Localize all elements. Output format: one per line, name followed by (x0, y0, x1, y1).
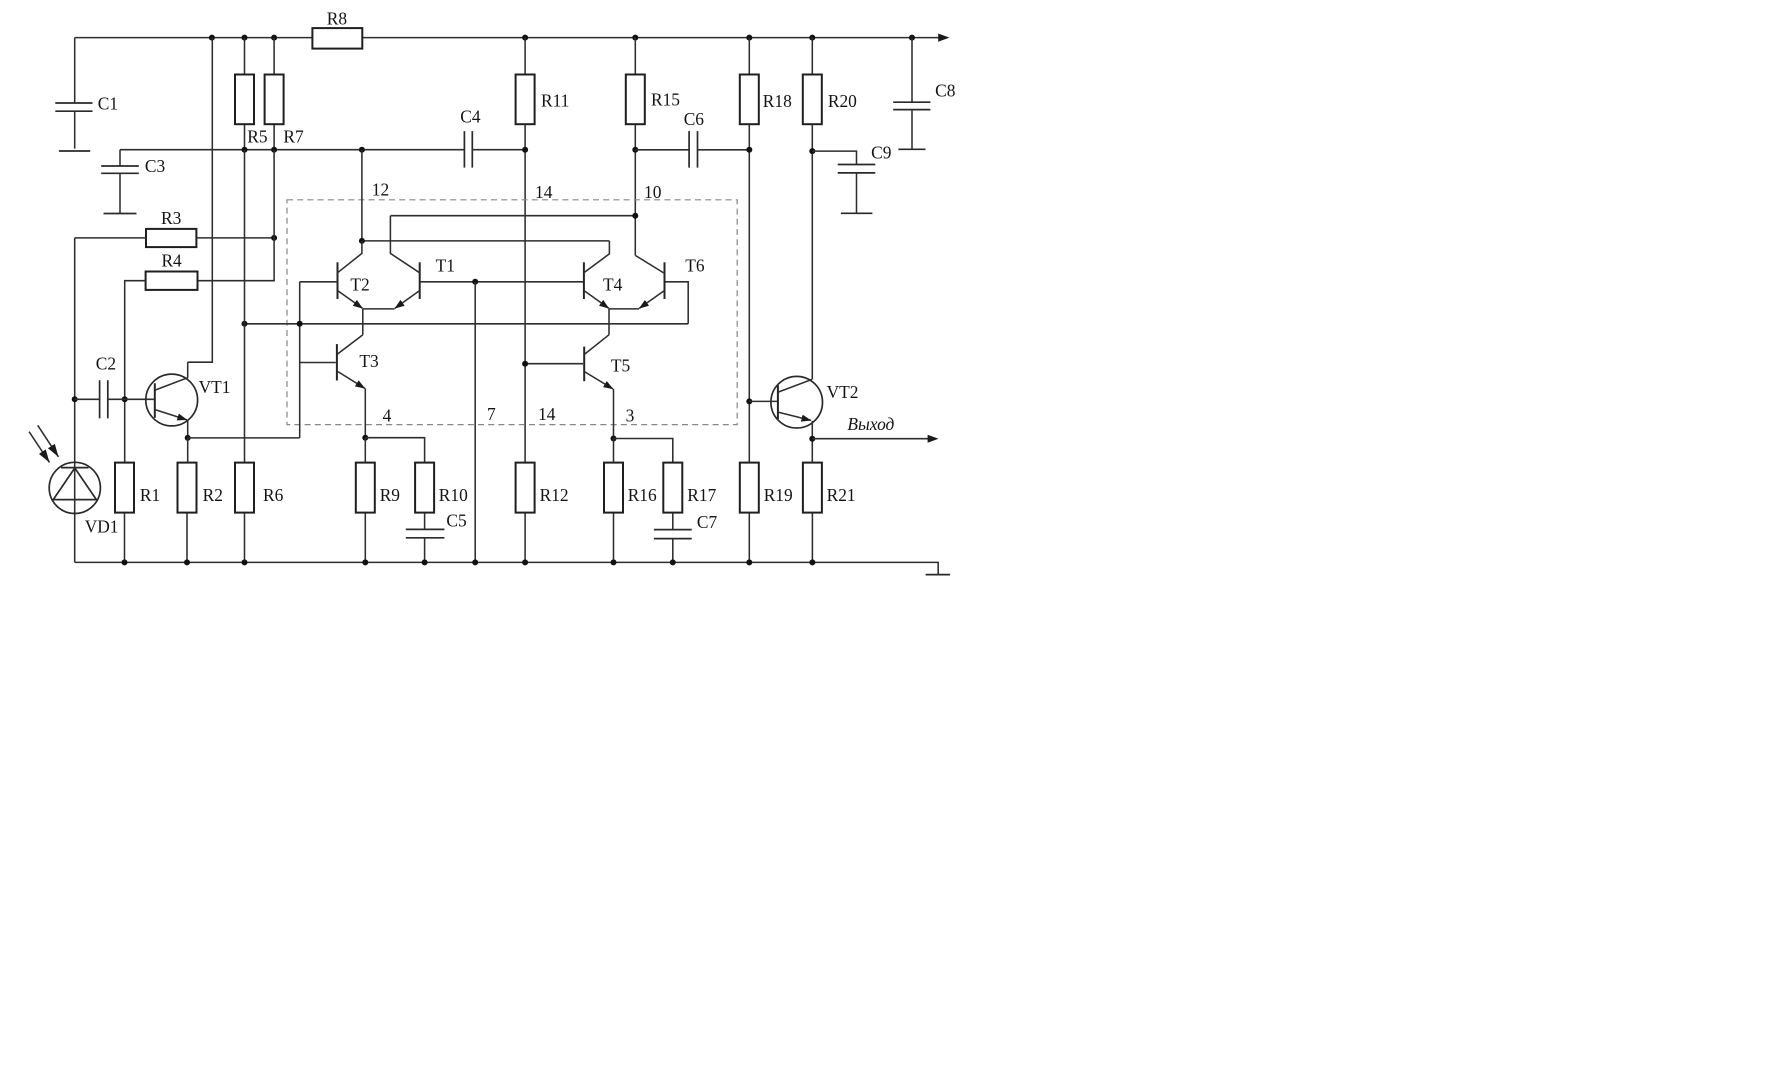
node dot top rail x635 (632, 35, 638, 41)
svg-text:C8: C8 (935, 81, 956, 101)
wire pin 12 (361, 150, 363, 241)
svg-text:R9: R9 (380, 485, 400, 505)
node dot x124.7 y399 (122, 396, 128, 402)
photodiode VD1 (29, 425, 100, 513)
resistor R4 (146, 272, 198, 290)
top rail arrowhead (938, 34, 949, 42)
transistor T2 (300, 241, 363, 309)
svg-text:R19: R19 (764, 485, 793, 505)
node dot x635 y150 (632, 147, 638, 153)
transistor T1 (390, 216, 583, 309)
resistor R6 (235, 463, 254, 513)
svg-text:R10: R10 (439, 485, 468, 505)
node dot VT2 base (746, 398, 752, 404)
resistor R21 (803, 463, 822, 513)
node dot gnd x812 (809, 559, 815, 565)
svg-text:14: 14 (535, 182, 553, 202)
transistor T4 (584, 241, 610, 309)
node dot top rail x274 (271, 35, 277, 41)
resistor R20 (803, 38, 822, 125)
ground bar (926, 574, 951, 576)
capacitor C1 (55, 38, 92, 151)
node dot T1 base pin7 (472, 279, 478, 285)
svg-text:7: 7 (487, 404, 496, 424)
svg-text:T6: T6 (685, 255, 705, 275)
capacitor C7 (654, 513, 692, 563)
node dot mid rail x244 (242, 147, 248, 153)
transistor T6 (635, 255, 664, 308)
node dot top rail x912 (909, 35, 915, 41)
svg-text:R20: R20 (828, 91, 857, 111)
wire R2 riser and bottom (186, 438, 189, 563)
capacitor C8 (893, 38, 930, 150)
svg-text:R16: R16 (628, 485, 657, 505)
node dot top rail x212 (209, 35, 215, 41)
wire R19 bottom (748, 513, 750, 563)
wire left column x74.7 (74, 238, 76, 563)
node dot VT1 emitter (185, 435, 191, 441)
svg-text:3: 3 (626, 406, 635, 426)
resistor R10 (415, 463, 434, 513)
wire top supply rail (75, 37, 939, 39)
node dot x299 y324 (297, 321, 303, 327)
svg-text:VD1: VD1 (85, 517, 119, 537)
node dot pin4 junction (362, 435, 368, 441)
node dot gnd x672 (670, 559, 676, 565)
wire R5/R6 column (244, 150, 246, 563)
wire R18 to VT2 base and R19 (748, 124, 750, 462)
svg-text:4: 4 (383, 406, 392, 426)
svg-text:C4: C4 (460, 107, 481, 127)
node dot T5 base x525 (522, 361, 528, 367)
svg-text:C3: C3 (145, 156, 166, 176)
transistor VT2 (749, 376, 822, 438)
resistor R7 (265, 38, 284, 150)
capacitor C9 (812, 151, 875, 213)
svg-text:T5: T5 (611, 355, 631, 375)
wire R4 left down to R1 (125, 281, 146, 463)
wire T2-T4 collector link (362, 240, 610, 242)
capacitor C2 (75, 380, 154, 418)
svg-text:Выход: Выход (847, 414, 894, 434)
wire R12 bottom (524, 513, 526, 563)
node dot gnd x749 (746, 559, 752, 565)
node dot top rail x812 (809, 35, 815, 41)
svg-text:R2: R2 (203, 485, 223, 505)
node dot gnd x475 (472, 559, 478, 565)
wire R3 right to R7 column (196, 237, 274, 239)
resistor R17 (663, 463, 682, 513)
wire mid rail y150 (120, 149, 464, 151)
transistor T5 (525, 335, 613, 389)
svg-text:C9: C9 (871, 142, 891, 162)
node dot gnd x187 (184, 559, 190, 565)
svg-text:C2: C2 (96, 353, 116, 373)
wire pin 14 column (524, 124, 526, 462)
resistor R16 (604, 463, 623, 513)
resistor R15 (626, 38, 645, 125)
node dot x749 y150 (746, 147, 752, 153)
node dot top rail x749 (746, 35, 752, 41)
svg-text:R5: R5 (247, 127, 268, 147)
node dot gnd x613 (611, 559, 617, 565)
capacitor C4 (464, 131, 525, 168)
wire long base horizontal y324 (245, 282, 689, 324)
transistor VT1 (146, 362, 198, 438)
wire R1 bottom (124, 513, 126, 563)
svg-text:C7: C7 (697, 512, 718, 532)
resistor R5 (235, 38, 254, 150)
capacitor C3 (101, 150, 139, 214)
wire VT1 emitter to T2/T3 feed (188, 437, 300, 439)
svg-text:R8: R8 (327, 8, 348, 28)
svg-text:T4: T4 (603, 274, 623, 294)
svg-text:R3: R3 (161, 208, 182, 228)
node dot x362 y240.9 (359, 238, 365, 244)
svg-text:R11: R11 (541, 91, 569, 111)
svg-text:R12: R12 (540, 485, 569, 505)
wire VT1 collector rail x212 (188, 38, 213, 363)
wire R20 to VT2 collector (811, 124, 813, 379)
svg-text:10: 10 (644, 182, 662, 202)
resistor R8 (312, 28, 362, 48)
node dot R3 right x274 (271, 235, 277, 241)
resistor R12 (516, 463, 535, 513)
resistor R18 (740, 38, 759, 125)
wire output (812, 438, 928, 440)
svg-text:C5: C5 (446, 510, 467, 530)
svg-text:R7: R7 (283, 127, 304, 147)
capacitor C6 (635, 131, 749, 168)
svg-text:T3: T3 (359, 351, 379, 371)
svg-text:VT1: VT1 (199, 377, 231, 397)
node dot VT2 emitter output (809, 436, 815, 442)
svg-text:C1: C1 (98, 94, 118, 114)
wire pin 10 column (634, 124, 636, 255)
svg-text:R21: R21 (827, 485, 856, 505)
node dot x812 y151 (C9 tap) (809, 148, 815, 154)
node dot pin3 junction (611, 436, 617, 442)
svg-text:C6: C6 (684, 109, 705, 129)
svg-text:R4: R4 (161, 251, 182, 271)
resistor R9 (356, 463, 375, 513)
svg-text:VT2: VT2 (827, 382, 859, 402)
wire T4-T6 emitter bar (609, 309, 639, 335)
node dot top rail x525 (522, 35, 528, 41)
node dot mid rail x362 (pin 12 top) (359, 147, 365, 153)
svg-text:T1: T1 (436, 255, 455, 275)
svg-text:T2: T2 (350, 274, 369, 294)
wire T2/T3 base feed column (299, 282, 301, 438)
svg-text:R15: R15 (651, 89, 680, 109)
node dot gnd x365 (362, 559, 368, 565)
node dot top rail x244 (242, 35, 248, 41)
wire pin 7 (474, 282, 476, 563)
resistor R1 (115, 463, 134, 513)
wire T2-T1 emitter bar (363, 309, 395, 335)
resistor R19 (740, 463, 759, 513)
node dot x74.7 y399 (72, 396, 78, 402)
capacitor C5 (406, 513, 445, 563)
wire R3 left (75, 237, 146, 239)
wire pin4 junction to R10 (365, 438, 424, 463)
wire bottom ground rail (75, 562, 939, 574)
wire T1 collector to pin10 link (390, 215, 635, 217)
svg-text:12: 12 (372, 180, 389, 200)
resistor R2 (178, 463, 197, 513)
wire R16 top and bottom (613, 439, 615, 563)
wire pin3 junction to R17 (614, 439, 673, 463)
node dot x635 y215.7 (632, 213, 638, 219)
transistor T3 (300, 335, 365, 389)
resistor R3 (146, 229, 196, 247)
wire pin 3 (613, 389, 615, 439)
node dot gnd x124 (122, 559, 128, 565)
node dot gnd x424 (422, 559, 428, 565)
resistor R11 (516, 38, 535, 125)
node dot mid rail x274 (271, 147, 277, 153)
IC dashed box DA1 (287, 200, 737, 425)
svg-text:R1: R1 (140, 485, 160, 505)
output arrowhead (928, 435, 939, 443)
node dot gnd x525 (522, 559, 528, 565)
node dot x244 y324 (242, 321, 248, 327)
wire R21 riser and bottom (811, 439, 813, 563)
svg-text:R18: R18 (763, 91, 792, 111)
wire R7 column down to R4 (198, 150, 275, 281)
wire pin 4 (364, 388, 366, 437)
svg-text:R6: R6 (263, 485, 284, 505)
svg-text:R17: R17 (687, 485, 716, 505)
node dot x525 y150 (522, 147, 528, 153)
svg-text:14: 14 (538, 404, 556, 424)
node dot gnd x244 (242, 559, 248, 565)
wire R9 top and bottom (364, 438, 366, 563)
